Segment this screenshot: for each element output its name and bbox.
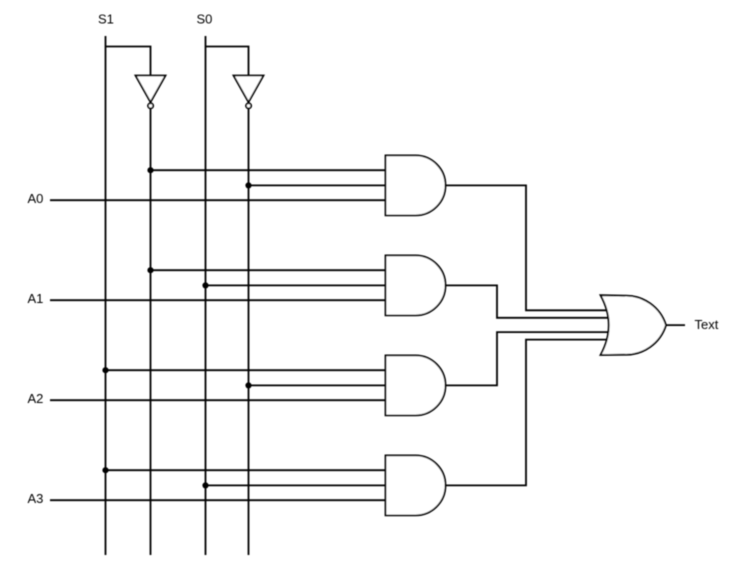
wire AND U5 output to OR U7 pin 3 bbox=[446, 332, 611, 385]
inverter U1 (NOT S1) bbox=[136, 76, 166, 109]
svg-text:A3: A3 bbox=[28, 491, 44, 506]
junction dot S0 / U4 pin 2 bbox=[202, 282, 208, 288]
wire S1-inverted to AND U3 pin 1 bbox=[151, 169, 386, 171]
svg-text:A2: A2 bbox=[28, 391, 44, 406]
wire input A0 bbox=[50, 199, 386, 201]
svg-text:A0: A0 bbox=[28, 191, 44, 206]
junction dot S1-inverted / U3 pin 1 bbox=[147, 167, 153, 173]
wire S1 branch to inverter U1 input bbox=[106, 47, 151, 76]
wire input A2 bbox=[50, 399, 386, 401]
junction dot S0-inverted / U5 pin 2 bbox=[245, 382, 251, 388]
junction dot S0 / U6 pin 2 bbox=[202, 482, 208, 488]
svg-text:Text: Text bbox=[695, 317, 719, 332]
AND gate U4 bbox=[386, 255, 446, 315]
wire S0-inverted to AND U3 pin 2 bbox=[249, 184, 386, 186]
svg-text:S0: S0 bbox=[197, 12, 213, 27]
wire OR U7 output bbox=[666, 324, 685, 326]
wire S0 to AND U6 pin 2 bbox=[206, 484, 386, 486]
junction dot S1 / U6 pin 1 bbox=[102, 467, 108, 473]
wire input A3 bbox=[50, 499, 386, 501]
junction dot S0-inverted / U3 pin 2 bbox=[245, 182, 251, 188]
svg-text:A1: A1 bbox=[28, 291, 44, 306]
wire S1-inverted to AND U4 pin 1 bbox=[151, 269, 386, 271]
OR gate U7 bbox=[601, 295, 667, 355]
wire S1-inverted vertical net bbox=[150, 109, 152, 555]
wire S1 to AND U6 pin 1 bbox=[106, 469, 386, 471]
wire S0 to AND U4 pin 2 bbox=[206, 284, 386, 286]
wire input A1 bbox=[50, 299, 386, 301]
AND gate U5 bbox=[386, 355, 446, 415]
wire S0-inverted vertical net bbox=[248, 109, 250, 555]
svg-text:S1: S1 bbox=[98, 12, 114, 27]
wire AND U4 output to OR U7 pin 2 bbox=[446, 285, 611, 317]
wire S0 branch to inverter U2 input bbox=[206, 47, 249, 76]
wire S1 vertical net bbox=[105, 36, 107, 555]
inverter U2 (NOT S0) bbox=[234, 76, 264, 109]
AND gate U3 bbox=[386, 155, 446, 215]
junction dot S1 / U5 pin 1 bbox=[102, 367, 108, 373]
wire S1 to AND U5 pin 1 bbox=[106, 369, 386, 371]
wire S0 vertical net bbox=[205, 36, 207, 555]
AND gate U6 bbox=[386, 455, 446, 515]
wire AND U3 output to OR U7 pin 1 bbox=[446, 185, 610, 310]
junction dot S1-inverted / U4 pin 1 bbox=[147, 267, 153, 273]
wire AND U6 output to OR U7 pin 4 bbox=[446, 340, 610, 486]
wire S0-inverted to AND U5 pin 2 bbox=[249, 384, 386, 386]
